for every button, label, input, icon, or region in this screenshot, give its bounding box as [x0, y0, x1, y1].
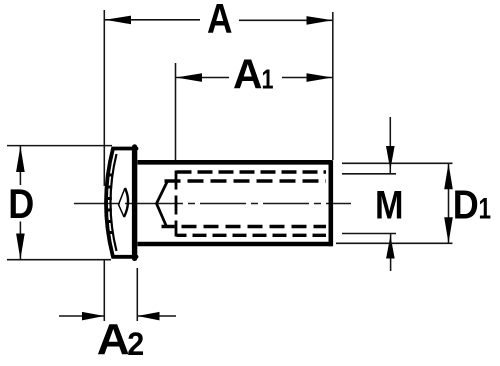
- svg-text:M: M: [375, 184, 404, 228]
- dimension D arrows: [16, 146, 25, 260]
- drill point chamfer: [157, 181, 168, 227]
- dimension D1 line: [448, 163, 450, 243]
- dimension M arrows: [389, 117, 391, 271]
- svg-text:A: A: [97, 315, 130, 361]
- dimension D line: [19, 146, 21, 259]
- dimension A2 lines: [59, 315, 176, 317]
- dimension M extension lines: [342, 174, 396, 234]
- dimension A2 extension lines: [104, 260, 137, 321]
- centerline: [74, 203, 351, 205]
- dimension A1 arrows: [176, 73, 333, 82]
- svg-text:1: 1: [479, 193, 492, 226]
- svg-text:A: A: [233, 51, 263, 98]
- dimension D extension lines: [7, 146, 112, 260]
- dimension A extension lines: [104, 10, 332, 186]
- body outline: [138, 160, 333, 246]
- svg-text:D: D: [8, 180, 34, 227]
- thread hidden lines: [162, 172, 327, 235]
- dimension A line: [105, 19, 332, 22]
- head recess: [119, 188, 129, 217]
- svg-text:2: 2: [127, 326, 144, 361]
- head slot rungs: [105, 175, 112, 233]
- head outline: [106, 147, 137, 258]
- svg-text:1: 1: [262, 64, 274, 95]
- dimension A1 line: [176, 77, 332, 79]
- thread runout line: [175, 171, 178, 237]
- svg-text:A: A: [207, 0, 233, 42]
- dimension A2 arrows: [82, 312, 160, 321]
- dimension D1 extension lines: [336, 163, 453, 243]
- dimension A arrows: [105, 16, 333, 25]
- svg-text:D: D: [453, 182, 479, 228]
- head inner arc: [111, 154, 117, 251]
- dimension A1 extension line: [175, 63, 177, 160]
- dimension D1 arrows: [444, 163, 453, 243]
